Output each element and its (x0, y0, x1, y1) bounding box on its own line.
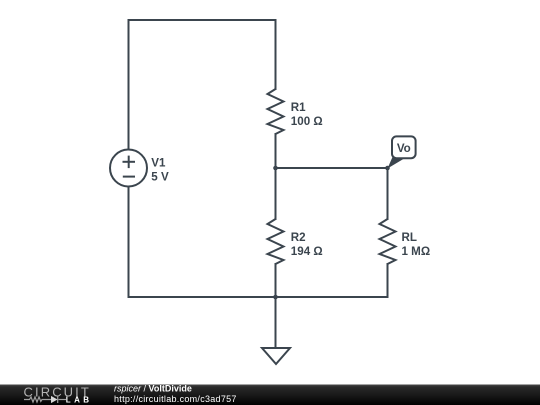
label V1 value (151, 156, 169, 183)
net flag Vo (388, 136, 416, 168)
wire R2 top lead (275, 168, 277, 219)
svg-text:Vo: Vo (397, 142, 411, 155)
svg-text:100 Ω: 100 Ω (291, 115, 323, 128)
svg-text:LAB: LAB (66, 395, 93, 404)
wire top rail (129, 19, 276, 21)
wire R2 bottom lead (275, 264, 277, 297)
svg-text:5 V: 5 V (151, 170, 169, 183)
label RL value (402, 231, 431, 258)
ground (262, 348, 290, 364)
circuitlab logo icon resistor-diode (24, 396, 66, 403)
wire left rail lower (128, 187, 130, 298)
wire RL bottom lead (387, 264, 389, 297)
wire R1 top lead (275, 20, 277, 89)
wire bottom rail (129, 296, 388, 298)
svg-text:194 Ω: 194 Ω (291, 245, 323, 258)
resistor RL (380, 219, 396, 264)
voltage source V1 (110, 150, 147, 187)
svg-text:rspicer / VoltDivide: rspicer / VoltDivide (114, 384, 192, 394)
wire left rail upper (128, 20, 130, 150)
wire mid rail node to RL (276, 167, 388, 169)
svg-text:R1: R1 (291, 101, 306, 114)
node junction R1-R2 (273, 166, 278, 171)
svg-text:V1: V1 (151, 156, 166, 169)
wire R1 bottom lead (275, 134, 277, 168)
svg-text:R2: R2 (291, 231, 306, 244)
svg-text:http://circuitlab.com/c3ad757: http://circuitlab.com/c3ad757 (114, 394, 237, 404)
svg-text:RL: RL (402, 231, 417, 244)
wire RL top lead (387, 168, 389, 219)
wire ground stub (275, 297, 277, 348)
label R2 value (291, 231, 323, 258)
node junction Vo (385, 166, 390, 171)
label R1 value (291, 101, 323, 128)
node junction ground (273, 295, 278, 300)
resistor R1 (268, 89, 284, 134)
resistor R2 (268, 219, 284, 264)
svg-text:1 MΩ: 1 MΩ (402, 245, 431, 258)
